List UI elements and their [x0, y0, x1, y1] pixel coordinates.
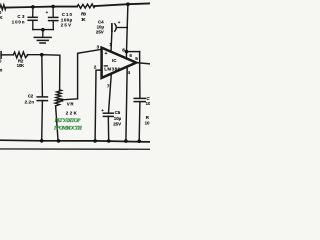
- capacitor C3: [32, 7, 34, 17]
- svg-text:ГРОМКОСТИ: ГРОМКОСТИ: [53, 126, 83, 132]
- svg-text:4: 4: [128, 70, 131, 75]
- svg-text:6: 6: [129, 53, 132, 58]
- wire wiper to pin 3: [78, 49, 102, 99]
- node C5/rail: [107, 139, 111, 143]
- svg-text:25V: 25V: [61, 22, 71, 27]
- node pin4/rail: [124, 139, 128, 143]
- ground: [34, 36, 51, 38]
- wire top rail right section: [95, 3, 150, 6]
- svg-text:C5: C5: [115, 110, 121, 115]
- wire bypass branch down: [139, 52, 141, 99]
- node pin2/rail: [93, 139, 97, 143]
- wire R2 to node: [27, 54, 41, 56]
- svg-text:1: 1: [109, 42, 112, 47]
- svg-text:n: n: [0, 68, 3, 73]
- resistor R2: [13, 52, 28, 58]
- svg-text:+: +: [101, 108, 104, 113]
- svg-text:2.2n: 2.2n: [25, 99, 35, 104]
- node C3 / top rail: [31, 5, 35, 9]
- wire input: [1, 54, 13, 56]
- wire pin 4 to ground rail: [126, 66, 127, 141]
- svg-text:10: 10: [145, 120, 150, 125]
- label R (cropped at right edge): [145, 115, 150, 125]
- capacitor C10: [52, 7, 54, 18]
- svg-text:10: 10: [146, 101, 150, 106]
- svg-text:5: 5: [135, 56, 138, 61]
- wire V+ down to pin 8 node: [126, 4, 128, 58]
- svg-text:2: 2: [94, 65, 97, 70]
- wiper arrow: [62, 98, 78, 101]
- potentiometer VR 22K: [55, 90, 62, 106]
- capacitor C5: [103, 112, 113, 114]
- border bottom: [0, 148, 150, 150]
- svg-text:C2: C2: [28, 94, 34, 99]
- svg-text:VR: VR: [67, 101, 75, 106]
- wire pin 7 to C5: [109, 74, 112, 113]
- svg-text:LM386: LM386: [104, 67, 120, 72]
- capacitor C2: [41, 55, 44, 97]
- wire pin 1: [110, 31, 113, 52]
- wire output pin 5: [136, 63, 150, 64]
- resistor R3: [77, 4, 95, 8]
- svg-text:РЕГУЛЯТОР: РЕГУЛЯТОР: [55, 118, 82, 124]
- wire node to VR: [42, 55, 60, 90]
- node R2 / C2 / VR: [40, 53, 44, 57]
- svg-text:+: +: [46, 10, 49, 15]
- op-amp IC LM386: [102, 48, 137, 78]
- svg-text:3: 3: [97, 45, 100, 50]
- svg-text:100n: 100n: [12, 20, 25, 25]
- capacitor C4: [111, 24, 113, 31]
- svg-text:R3: R3: [81, 12, 86, 17]
- node pin 8 junction: [125, 50, 129, 54]
- wire pin 2 to ground: [95, 70, 102, 141]
- node C2/rail: [40, 139, 44, 143]
- node VR/rail: [57, 139, 61, 143]
- node ground tee: [41, 28, 45, 32]
- label R1 fragment: [0, 10, 3, 20]
- svg-text:7: 7: [107, 84, 110, 89]
- svg-text:25V: 25V: [113, 122, 121, 127]
- label volume control (green): [53, 118, 83, 132]
- node C7/rail: [137, 139, 141, 143]
- node V+ / top rail: [126, 2, 130, 6]
- svg-text:8: 8: [122, 47, 125, 52]
- svg-text:10K: 10K: [17, 63, 25, 68]
- capacitor C7: [134, 97, 145, 99]
- svg-text:C3: C3: [17, 14, 25, 19]
- svg-text:+: +: [118, 20, 121, 25]
- wire ground rail: [0, 140, 150, 142]
- wire pin8 node to bypass branch: [127, 51, 140, 53]
- svg-text:25V: 25V: [96, 30, 104, 35]
- wire top supply rail: [6, 6, 77, 9]
- svg-text:22K: 22K: [66, 111, 78, 116]
- resistor R1 (cropped at left edge): [0, 5, 6, 10]
- wire ground tee: [33, 29, 54, 31]
- svg-text:+: +: [105, 51, 108, 57]
- input capacitor C1 (cropped at left edge): [0, 52, 2, 59]
- node C10 / top rail: [51, 5, 55, 9]
- svg-text:10µ: 10µ: [114, 116, 122, 121]
